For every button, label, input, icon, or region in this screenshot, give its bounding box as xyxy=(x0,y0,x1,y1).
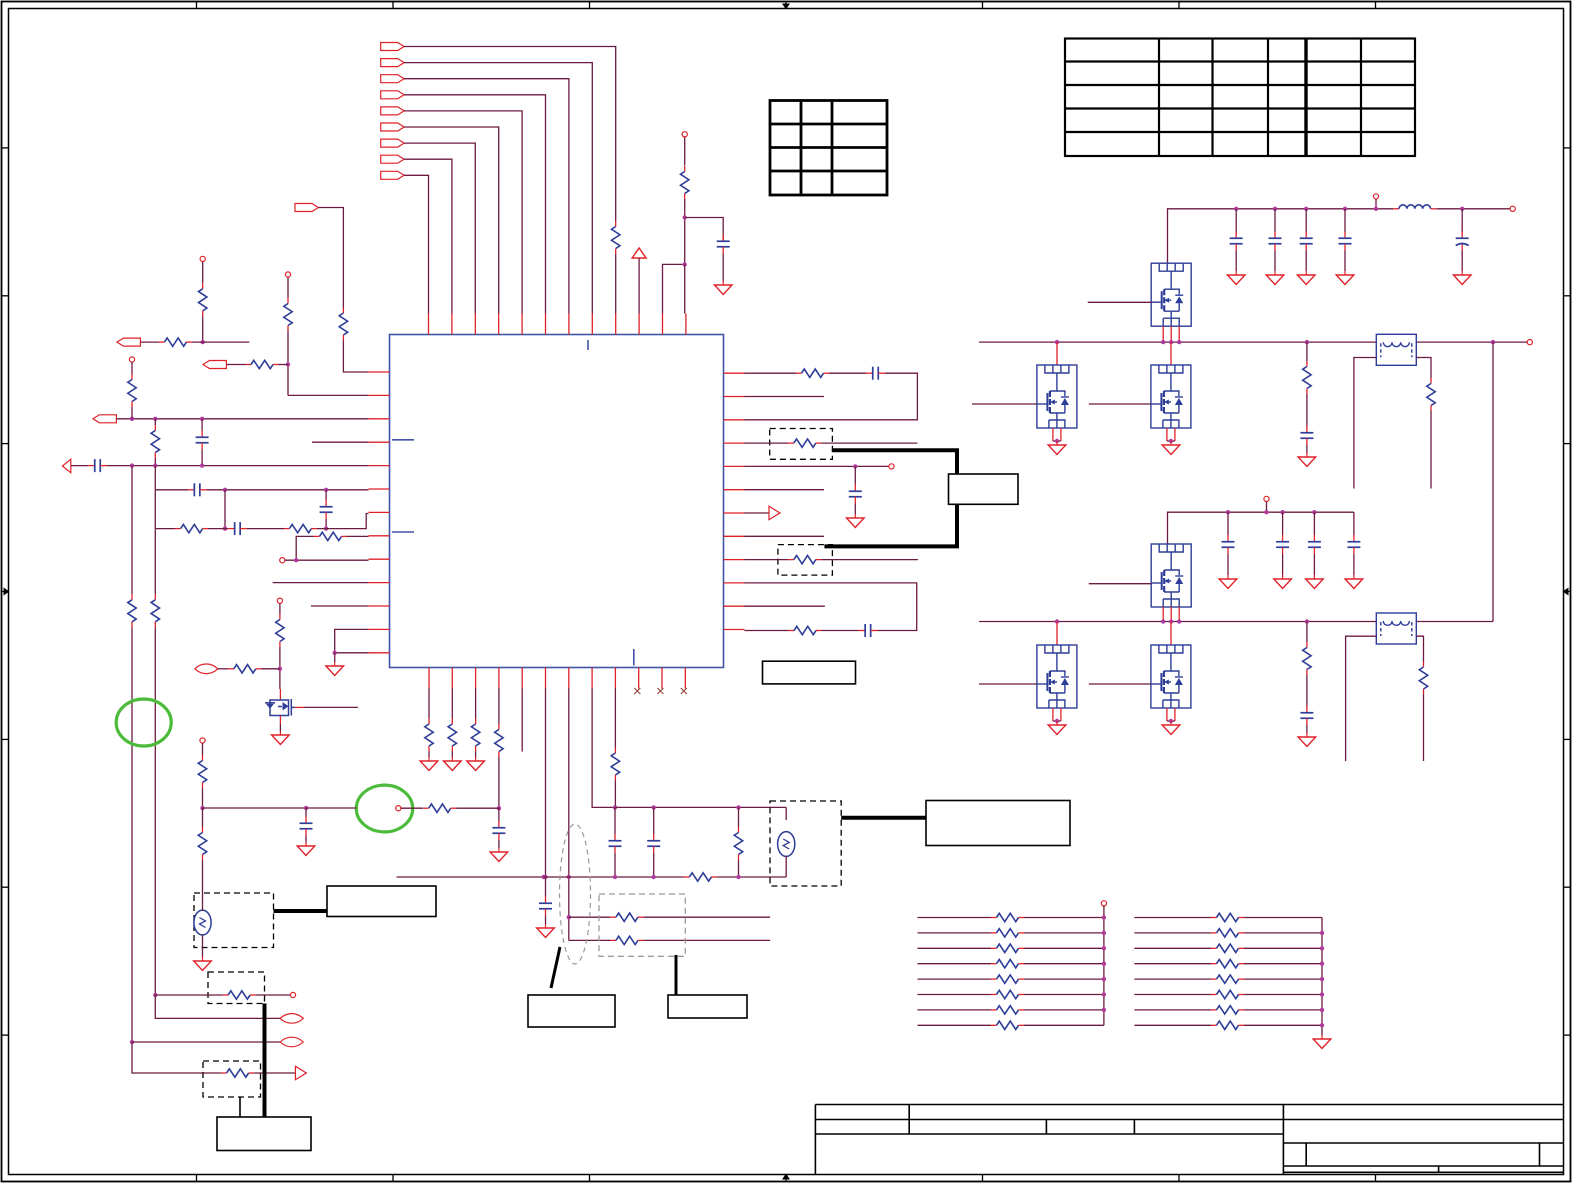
junction J41-1 xyxy=(1280,510,1284,514)
ground GND19 xyxy=(1298,453,1316,467)
wire Q2 bottom pins xyxy=(1163,326,1179,342)
wire array2 row 6 a xyxy=(1134,994,1211,996)
ground GND4 xyxy=(847,514,865,528)
wire C20 to ground xyxy=(1306,445,1308,453)
port flag OUT1 xyxy=(203,361,226,369)
dashed box DB6 xyxy=(208,972,265,1004)
junction J41-2 xyxy=(1312,510,1316,514)
resistor R26 xyxy=(611,748,619,781)
wire T1 sec right b xyxy=(1430,411,1432,489)
resistor R33 xyxy=(1303,361,1311,394)
dashed box DB1 xyxy=(770,429,833,460)
capacitor C2 xyxy=(196,431,209,450)
callout box CB4 xyxy=(327,886,436,917)
junction J34a xyxy=(1161,340,1165,344)
terminal TP11 xyxy=(1373,194,1378,199)
junction J20 xyxy=(613,805,617,809)
ground GND2 xyxy=(326,662,344,676)
wire U1 pin B1 down xyxy=(428,689,430,719)
resistor RA1-3 xyxy=(991,944,1024,952)
dashed box DB7 xyxy=(203,1061,261,1097)
junction J11 xyxy=(324,526,328,530)
wire net IN6 xyxy=(404,127,499,314)
ground GND21 xyxy=(1274,575,1292,589)
resistor R4 xyxy=(284,298,292,331)
junction J42b xyxy=(1169,619,1173,623)
wire U1 pin R4 to R16 xyxy=(745,442,789,444)
wire J38 to R33 xyxy=(1306,342,1308,361)
wire rail to C23 xyxy=(1313,512,1315,535)
junction JA1-6 xyxy=(1102,992,1106,996)
resistor R24 xyxy=(610,913,643,921)
wire net IN8 xyxy=(404,159,452,313)
wire array2 row 2 b xyxy=(1244,932,1322,934)
capacitor C9 xyxy=(858,624,877,637)
dashed box DB3 xyxy=(770,801,841,886)
wire row 877 b xyxy=(544,876,684,878)
capacitor C25 xyxy=(1300,706,1313,725)
wire row L6a xyxy=(155,489,188,491)
wire net IN3 xyxy=(404,79,569,314)
wire C23 to ground xyxy=(1313,554,1315,575)
ground GND17 xyxy=(1048,441,1066,455)
capacitor C1 xyxy=(717,235,730,254)
capacitor C12 xyxy=(609,834,622,853)
wire Q1 drain stub xyxy=(279,689,281,700)
wire row 1042 xyxy=(132,1041,280,1043)
junction JA1-4 xyxy=(1102,962,1106,966)
wire rail to C16 xyxy=(1274,209,1276,232)
wire rail N2 right xyxy=(1416,341,1529,343)
wire net IN1 xyxy=(404,47,616,222)
wire net IN9 xyxy=(404,175,428,313)
resistor RA2-6 xyxy=(1211,990,1244,998)
resistor R6 xyxy=(128,374,136,407)
wire R10 corner xyxy=(296,536,314,560)
junction J16 xyxy=(497,806,501,810)
wire R3 to node A xyxy=(684,199,686,264)
wire R1 to U1 xyxy=(615,254,617,314)
wire J8 down xyxy=(224,490,226,529)
junction JA1-7 xyxy=(1102,1008,1106,1012)
port flag IN6 xyxy=(381,123,404,131)
wire C17 to ground xyxy=(1305,251,1307,272)
ground GND22 xyxy=(1306,575,1324,589)
wire long vertical net V1 xyxy=(131,466,133,595)
junction J10 xyxy=(223,526,227,530)
resistor R19 xyxy=(425,719,433,752)
capacitor C4 xyxy=(188,483,207,496)
junction J40 xyxy=(1264,510,1268,514)
resistor R21 xyxy=(471,719,479,752)
resistor RA1-1 xyxy=(991,913,1024,921)
wire C25 to ground xyxy=(1306,725,1308,733)
callout box CB5 xyxy=(217,1117,311,1151)
wire C12 to row877 xyxy=(614,853,616,877)
wire stub U1 pin R8 xyxy=(745,535,825,537)
dashed box DB2 xyxy=(778,545,833,576)
wire TP8 to R29 xyxy=(202,743,204,755)
wire R5 to J1 xyxy=(279,364,289,366)
wire Q4 top pin xyxy=(1170,342,1172,365)
highlight circle H2 (green) xyxy=(116,699,171,746)
resistor R17 xyxy=(788,555,821,563)
resistor R16 xyxy=(788,439,821,447)
wire R4 to junction xyxy=(287,331,289,395)
resistor RA1-4 xyxy=(991,960,1024,968)
junction J44 xyxy=(1055,719,1059,723)
wire C2 to J7 xyxy=(201,450,203,466)
terminal TP3 xyxy=(129,357,134,362)
wire TP5 to R13 xyxy=(279,603,281,614)
junction J45 xyxy=(1169,719,1173,723)
terminal TP14 xyxy=(1101,901,1106,906)
wire Y2 to ground xyxy=(202,935,204,958)
wire J33 to C19 xyxy=(1461,209,1463,232)
wire C21 to ground xyxy=(1227,554,1229,575)
wire R32 to flag xyxy=(254,1072,295,1074)
wire stub U1 pin L11 xyxy=(311,605,369,607)
thick bus B4 xyxy=(263,1004,267,1118)
wire R6 to J2 xyxy=(131,407,133,419)
ground GND1 xyxy=(714,281,732,295)
wire Q5 gate xyxy=(1089,583,1151,585)
port flag IN3 xyxy=(381,75,404,83)
wire C11 to ground xyxy=(545,916,547,925)
junction J42c xyxy=(1177,619,1181,623)
wire stub U1 pin B5 xyxy=(521,689,523,752)
capacitor C3 xyxy=(88,459,107,472)
wire U1 pin B3 down xyxy=(475,689,477,719)
capacitor C24 xyxy=(1347,535,1360,554)
capacitor C6 xyxy=(228,522,247,535)
wire J16 to C10 xyxy=(498,808,500,821)
wire C8 to ground xyxy=(854,504,856,515)
wire rail N3 xyxy=(1168,512,1354,544)
wire corner L6 xyxy=(154,466,156,529)
junction J29 xyxy=(153,993,157,997)
junction J22 xyxy=(736,805,740,809)
port flag oval P4 xyxy=(280,1037,303,1047)
resistor R36 xyxy=(1419,662,1427,695)
resistor R37 xyxy=(199,283,207,316)
title block xyxy=(815,1105,1563,1175)
port flag IN8 xyxy=(381,155,404,163)
ground GND7 xyxy=(467,757,485,771)
wire array1 row 3 a xyxy=(918,947,992,949)
capacitor C21 xyxy=(1222,535,1235,554)
wire row 528.6 c to U1 pin L7 xyxy=(317,514,369,529)
wire P1 to R14 xyxy=(218,668,229,670)
wire C7 loop to U1 pin R3 xyxy=(745,373,918,420)
junction J8 xyxy=(223,488,227,492)
wire array2 row 5 b xyxy=(1244,978,1322,980)
junction JA1-1 xyxy=(1102,915,1106,919)
wire row RR2b xyxy=(643,939,770,941)
callout leader L2 xyxy=(675,955,678,995)
capacitor C11 xyxy=(539,897,552,916)
wire rail to C15 xyxy=(1235,209,1237,232)
wire U1 pin R10 loop xyxy=(745,583,917,631)
terminal TP15 xyxy=(200,256,205,261)
wire array1 row 4 a xyxy=(918,963,992,965)
capacitor C10 xyxy=(492,821,505,840)
port flag tri P5 xyxy=(295,1066,306,1079)
port flag oval P1 xyxy=(195,664,218,674)
ground GND10 xyxy=(297,842,315,856)
junction JA2-6 xyxy=(1320,992,1324,996)
wire R14 to J14 xyxy=(261,668,280,670)
wire row RR2 xyxy=(569,939,611,941)
resistor RA2-1 xyxy=(1211,913,1244,921)
resistor R20 xyxy=(448,719,456,752)
capacitor C23 xyxy=(1308,535,1321,554)
capacitor C5 xyxy=(320,500,333,519)
wire R35 to C25 xyxy=(1306,675,1308,706)
resistor R1 (inline, pin col 615.7) xyxy=(612,221,620,254)
wire step L12-L13 xyxy=(335,629,369,652)
port flag IN4 xyxy=(381,91,404,99)
capacitor C13 xyxy=(647,834,660,853)
junction J26 xyxy=(736,875,740,879)
ground GND9 xyxy=(537,924,555,938)
thick bus B3 xyxy=(274,909,328,913)
wire U1 pin R7 to flag xyxy=(745,512,770,514)
wire row L3 xyxy=(116,418,368,420)
junction J24 xyxy=(613,875,617,879)
wire rail to C18 xyxy=(1344,209,1346,232)
wire rail to C22 xyxy=(1282,512,1284,535)
thick bus B2 xyxy=(841,816,926,820)
wire stub U1 pin L4 xyxy=(312,441,369,443)
wire V1 end corner xyxy=(132,1042,203,1073)
wire J1 to U1 pin L2 xyxy=(288,394,369,396)
ground GND13 xyxy=(1266,271,1284,285)
port flag tri P2 xyxy=(769,506,780,519)
wire array bus 1 xyxy=(1103,906,1105,1025)
wire row 877 c xyxy=(717,876,786,878)
wire array2 row 7 a xyxy=(1134,1009,1211,1011)
ground GND26 xyxy=(1298,733,1316,747)
wire Q5 bottom pins xyxy=(1163,607,1179,622)
terminal TP13 xyxy=(1264,496,1269,501)
highlight circle H1 (green) xyxy=(356,785,412,832)
junction J6 xyxy=(153,463,157,467)
terminal TP6 xyxy=(889,464,894,469)
resistor R3 xyxy=(681,166,689,199)
wire R21 to ground xyxy=(475,752,477,758)
junction J43 xyxy=(1055,619,1059,623)
wire array2 row 1 a xyxy=(1134,917,1211,919)
junction J2 xyxy=(130,417,134,421)
ground GND3 xyxy=(272,731,290,745)
capacitor C19 (polarized) xyxy=(1456,232,1469,251)
wire net IN7 xyxy=(404,143,475,313)
wire R18 to U1 pin R12 xyxy=(745,630,789,632)
resistor R28 xyxy=(684,873,717,881)
inductor FB1 xyxy=(1393,205,1437,209)
ground GND18 xyxy=(1162,441,1180,455)
wire row 528.6 ab xyxy=(208,528,228,530)
junction J14 xyxy=(278,667,282,671)
junction JA2-3 xyxy=(1320,946,1324,950)
resistor R31 xyxy=(223,991,256,999)
U1 internal tick marks xyxy=(392,340,634,666)
wire J21 to C13 xyxy=(653,807,655,834)
resistor RA1-7 xyxy=(991,1006,1024,1014)
wire TP15 to R37 xyxy=(202,262,204,284)
capacitor C17 xyxy=(1300,232,1313,251)
resistor R12 xyxy=(151,594,159,627)
transistor Q2 (pkg mosfet) xyxy=(1151,263,1191,326)
terminal TP5 xyxy=(277,598,282,603)
pin/spec table (large, 5x6) xyxy=(1065,39,1415,157)
dashed box DB5 xyxy=(194,893,274,948)
wire Q6 bottom pins xyxy=(1053,708,1061,721)
resistor R27 (vertical) xyxy=(734,827,742,860)
wire U1 pin B2 down xyxy=(451,689,453,719)
wire J13 down xyxy=(334,653,336,662)
junction J32-0 xyxy=(1234,207,1238,211)
wire U1 pin B8 corner xyxy=(592,689,615,808)
wire rail to C17 xyxy=(1305,209,1307,232)
wire Y1 to row877 xyxy=(785,856,787,877)
wire J46 to R35 xyxy=(1306,622,1308,643)
wire U1 pin B4 down xyxy=(498,689,500,725)
wire R29 to J27 xyxy=(202,788,204,808)
wire Q4 bottom pins xyxy=(1167,428,1175,441)
wire C14 to ground xyxy=(305,836,307,843)
junction J47 xyxy=(201,340,205,344)
wire C5 to J11 xyxy=(325,519,327,529)
wire Q1 source stub xyxy=(279,716,281,725)
resistor R7 xyxy=(151,425,159,458)
wire R31 to TP9 xyxy=(256,994,291,996)
wire T2 sec left xyxy=(1346,636,1377,761)
thick bus B1b xyxy=(824,504,957,546)
ground GND12 xyxy=(1227,271,1245,285)
ground GND15 xyxy=(1336,271,1354,285)
wire U1 pin B6 down xyxy=(545,689,547,878)
junction J46 xyxy=(1305,619,1309,623)
power flag VCC1 (U1 top pin 10) xyxy=(632,248,646,258)
wire array1 row 6 a xyxy=(918,994,992,996)
junction J15 xyxy=(853,464,857,468)
wire OUT4 to R38 xyxy=(140,341,159,343)
transformer T2 xyxy=(1376,613,1416,644)
wire J17 to C11 xyxy=(545,877,547,897)
ground GND14 xyxy=(1297,271,1315,285)
transistor Q1 (small fet) xyxy=(265,699,295,716)
thick bus B1 xyxy=(832,450,957,474)
junction J5 xyxy=(130,463,134,467)
wire row 877 xyxy=(397,876,544,878)
transistor Q5 (pkg mosfet) xyxy=(1151,544,1191,607)
wire N2-N4 link xyxy=(1492,342,1494,621)
U1 pin stubs xyxy=(369,314,745,689)
row 807.4 to dashed box xyxy=(615,806,786,808)
wire R26 to J20 xyxy=(614,781,616,808)
capacitor C20 xyxy=(1300,426,1313,445)
wire stub U1 pin L10 xyxy=(273,582,369,584)
wire R23 to J16 xyxy=(456,807,499,809)
wire TP11 stub xyxy=(1375,199,1377,209)
wire array2 row 4 a xyxy=(1134,963,1211,965)
wire array1 row 1 a xyxy=(918,917,992,919)
wire Q4 gate xyxy=(1089,403,1151,405)
junction J32-3 xyxy=(1343,207,1347,211)
junction J17 xyxy=(543,875,547,879)
wire rail N4 right xyxy=(1416,621,1493,623)
main IC U1 body xyxy=(390,335,724,668)
ground GND6 xyxy=(444,757,462,771)
junction J38 xyxy=(1305,340,1309,344)
wire rail N1 xyxy=(1168,209,1394,263)
junction J37 xyxy=(1169,439,1173,443)
wire J4 to C2 xyxy=(201,419,203,431)
wire array2 row 3 a xyxy=(1134,947,1211,949)
resistor R14 xyxy=(228,665,261,673)
wire array1 row 7 b xyxy=(1024,1009,1104,1011)
wire row 1073 xyxy=(203,1072,221,1074)
wire rail N2 xyxy=(979,341,1376,343)
callout box CB1 xyxy=(926,801,1070,846)
wire array2 row 3 b xyxy=(1244,947,1322,949)
port flag OUT4 xyxy=(117,338,140,346)
resistor R8 xyxy=(175,524,208,532)
wire TP1 to R3 xyxy=(684,137,686,166)
wire array1 row 2 a xyxy=(918,932,992,934)
wire T1 sec right a xyxy=(1416,358,1431,379)
resistor R35 xyxy=(1303,642,1311,675)
junction J28 xyxy=(304,806,308,810)
callout box CB3 xyxy=(668,995,747,1018)
wire C9 to R18 xyxy=(822,630,859,632)
wire rail N1 right xyxy=(1437,208,1511,210)
resistor R32 xyxy=(221,1069,254,1077)
junction J32-2 xyxy=(1304,207,1308,211)
junction J23 xyxy=(541,875,545,879)
wire Q1 source to ground xyxy=(279,724,281,731)
wire J27 down xyxy=(202,808,204,827)
wire Q1 gate xyxy=(304,706,358,708)
wire long vertical net V2b xyxy=(154,627,156,995)
wire C16 to ground xyxy=(1274,251,1276,272)
wire TP7 to R23 xyxy=(401,807,423,809)
wire C22 to ground xyxy=(1282,554,1284,575)
resistor R11 xyxy=(128,594,136,627)
resistor R15 xyxy=(796,369,829,377)
wire Q2 gate xyxy=(1088,301,1152,303)
wire J20 to C12 xyxy=(614,807,616,834)
ground GND25 xyxy=(1162,721,1180,735)
wire U1 pin T11 to node A xyxy=(663,264,685,313)
wire net IN2 xyxy=(404,63,592,314)
junction JA1-3 xyxy=(1102,946,1106,950)
port flag tri OUT3 xyxy=(62,459,70,472)
wire R33 to C20 xyxy=(1306,394,1308,426)
wire Q6 top pin xyxy=(1056,622,1058,646)
wire R16 right xyxy=(821,442,917,444)
wire R27 to row877 xyxy=(738,860,740,877)
wire array1 row 2 b xyxy=(1024,932,1104,934)
wire Q4 src join xyxy=(1167,440,1175,442)
resistor R34 xyxy=(1427,378,1435,411)
wire Q7 src join xyxy=(1167,720,1175,722)
wire oval drop xyxy=(785,807,787,820)
wire stub U1 pin R2 xyxy=(745,396,825,398)
wire U1 pin R9 to R17 xyxy=(745,559,789,561)
